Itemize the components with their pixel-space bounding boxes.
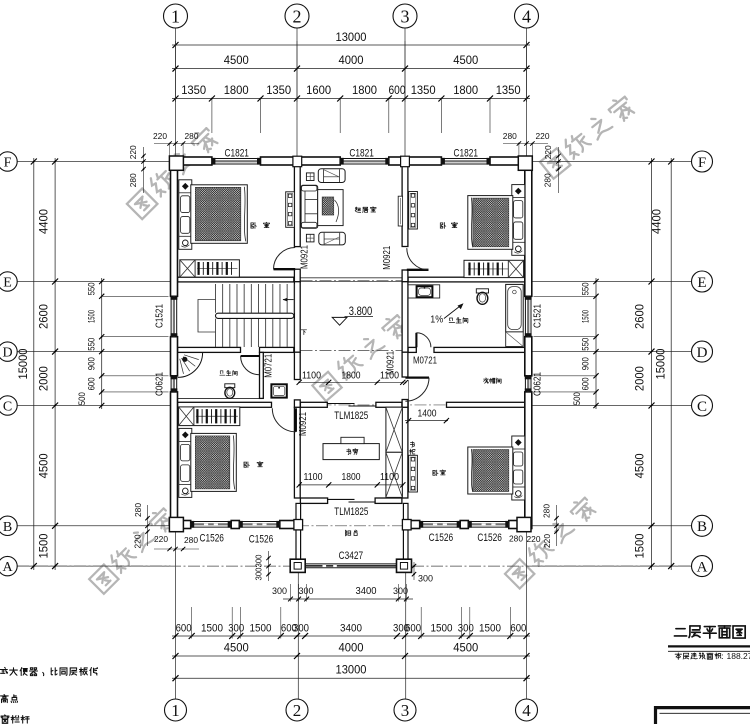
svg-text:1100: 1100 xyxy=(304,471,323,483)
wall right exterior, between windows xyxy=(525,337,532,376)
svg-text:M0721: M0721 xyxy=(263,354,275,378)
svg-text::: : xyxy=(721,651,723,661)
label bookcase xyxy=(410,442,414,448)
svg-text:15000: 15000 xyxy=(654,348,668,379)
label M0921 bedroom2 door xyxy=(381,246,393,270)
watermark top-left xyxy=(126,125,220,219)
bed bedroom3 xyxy=(179,428,192,497)
watermark top-right xyxy=(539,93,637,178)
room label bathroom2 xyxy=(449,318,455,323)
dim line small left xyxy=(101,278,103,409)
svg-text:C1526: C1526 xyxy=(249,533,274,545)
svg-text:280: 280 xyxy=(184,535,198,545)
svg-text:550: 550 xyxy=(581,282,592,295)
svg-text:C1521: C1521 xyxy=(153,304,165,328)
svg-text:1500: 1500 xyxy=(37,533,51,558)
svg-text:13000: 13000 xyxy=(336,663,367,677)
svg-text:4500: 4500 xyxy=(224,641,249,655)
wardrobe bedroom1 xyxy=(180,260,240,277)
svg-text:300: 300 xyxy=(393,586,408,597)
svg-text:D: D xyxy=(697,345,708,361)
wall B, window to wall2 xyxy=(280,521,297,529)
stair treads upper flight xyxy=(216,284,295,313)
wall 3, E to D bath2 side xyxy=(402,282,408,353)
wall left exterior, C0621 to B xyxy=(171,392,178,529)
note line 3 xyxy=(1,715,9,723)
svg-text:M0721: M0721 xyxy=(413,355,437,367)
svg-text:2: 2 xyxy=(293,701,302,720)
svg-text:C: C xyxy=(697,399,707,415)
svg-text:C0621: C0621 xyxy=(532,372,544,396)
svg-text:280: 280 xyxy=(503,131,517,141)
wall C, wall2 to sliding door xyxy=(300,402,327,407)
sliding door TLM1825 in wall C xyxy=(327,403,354,405)
pier F-wall2 xyxy=(293,156,302,167)
dim 1400 bedroom4 opening xyxy=(405,420,448,422)
label C0621 left xyxy=(153,372,165,396)
svg-text:1100: 1100 xyxy=(302,369,321,381)
axis bubble 2 top xyxy=(285,4,309,28)
wall B, between windows right xyxy=(460,521,468,529)
balcony post left xyxy=(290,559,305,572)
dim line 4500/4000/4500 top xyxy=(172,68,530,70)
closet bedroom3 xyxy=(179,407,240,426)
svg-text:1500: 1500 xyxy=(633,533,647,558)
axis line C right stub xyxy=(532,405,692,407)
corner shower bathroom1 xyxy=(178,353,203,378)
svg-text:C1821: C1821 xyxy=(349,147,374,159)
axis line D left stub xyxy=(17,351,171,353)
svg-text:220: 220 xyxy=(527,534,541,544)
svg-text:F: F xyxy=(698,155,706,171)
svg-text:300: 300 xyxy=(254,567,264,580)
wall D, bath2 door to A4 xyxy=(434,347,525,352)
axis line F left stub xyxy=(17,161,171,163)
pier B-balcony wall east xyxy=(402,520,411,530)
study bottom wall right segment xyxy=(375,498,402,503)
svg-text:E: E xyxy=(697,275,706,291)
axis bubble 4 top xyxy=(515,4,539,28)
svg-text:1800: 1800 xyxy=(352,83,377,97)
svg-text:1400: 1400 xyxy=(418,407,437,419)
svg-text:4400: 4400 xyxy=(650,209,664,234)
svg-text:300: 300 xyxy=(293,623,309,635)
wall F top, segment mid-left xyxy=(261,157,341,165)
wall 2, study west side xyxy=(294,407,300,498)
svg-text:1800: 1800 xyxy=(224,83,249,97)
dresser bedroom2 xyxy=(409,192,418,230)
wall 3, C junction stub xyxy=(402,400,408,408)
axis bubble D right xyxy=(692,341,713,362)
axis C dash-dot in wall xyxy=(301,404,525,406)
window C1526 bedroom3 left xyxy=(191,521,232,523)
axis line F right stub xyxy=(532,161,692,163)
balcony west wall xyxy=(296,503,301,559)
axis line A right stub xyxy=(532,565,692,567)
wall B, between windows left xyxy=(231,521,239,529)
svg-text:15000: 15000 xyxy=(16,348,30,379)
svg-text:B: B xyxy=(697,519,707,535)
axis bubble A right xyxy=(692,556,713,577)
dim line small right xyxy=(595,278,597,409)
svg-text:M0921: M0921 xyxy=(299,245,311,269)
toilet bathroom1 xyxy=(225,384,235,388)
room label bedroom2 xyxy=(440,223,445,229)
svg-text:220: 220 xyxy=(128,145,138,159)
wall right exterior, F to window C1521 xyxy=(525,157,532,296)
wall D, bath1-door to wall2 xyxy=(260,347,294,352)
door M0721 bathroom2 xyxy=(415,333,417,348)
axis bubble 3 bottom xyxy=(394,699,416,721)
dresser bedroom1 xyxy=(286,192,295,228)
svg-text:4500: 4500 xyxy=(37,453,51,478)
dim 1100/1800/1100 study xyxy=(299,484,403,486)
svg-text:600: 600 xyxy=(581,377,592,390)
window C1526 bedroom4 left xyxy=(420,521,461,523)
svg-text:1500: 1500 xyxy=(431,623,453,635)
wall 2, E to D stairwell side xyxy=(294,282,300,353)
svg-text:TLM1825: TLM1825 xyxy=(334,410,368,422)
svg-text:1500: 1500 xyxy=(87,310,98,323)
dim line storey right xyxy=(651,158,653,570)
note line 2 xyxy=(1,695,9,703)
wall E xyxy=(178,277,294,282)
stair handrail xyxy=(216,313,294,318)
svg-text:280: 280 xyxy=(543,173,553,187)
svg-text:550: 550 xyxy=(87,338,98,351)
washbasin counter bathroom2 xyxy=(408,285,440,298)
svg-text:600: 600 xyxy=(405,623,421,635)
axis line 3 xyxy=(404,28,406,157)
window C1521 stairwell left wall xyxy=(170,296,172,336)
svg-text:4: 4 xyxy=(522,701,531,720)
svg-text:2600: 2600 xyxy=(633,304,647,329)
axis bubble C left xyxy=(0,396,17,415)
svg-text:C1521: C1521 xyxy=(532,304,544,328)
axis line B right stub xyxy=(532,525,692,527)
axis line E left stub xyxy=(17,281,171,283)
axis bubble 4 bottom xyxy=(516,699,538,721)
svg-text:1350: 1350 xyxy=(181,83,206,97)
room label bedroom4 xyxy=(433,470,438,475)
svg-text:300: 300 xyxy=(418,574,433,585)
svg-text:D: D xyxy=(2,346,12,361)
wall 3, study east side xyxy=(402,407,408,498)
label M0921 bedroom3 door xyxy=(297,412,309,436)
room label study xyxy=(347,449,351,455)
svg-text:1: 1 xyxy=(171,6,180,26)
room label bedroom3 xyxy=(244,462,249,468)
tv board living xyxy=(398,196,402,226)
axis bubble C right xyxy=(692,395,713,416)
window C1821 bedroom2 xyxy=(441,157,490,159)
svg-text:F: F xyxy=(4,156,12,171)
window C0621 cloakroom right wall xyxy=(524,376,526,392)
svg-text:2000: 2000 xyxy=(37,366,51,391)
svg-text:300: 300 xyxy=(272,586,287,597)
bathroom1 bottom line xyxy=(178,397,260,399)
axis line 2 xyxy=(296,28,298,157)
hall-living floor lines on E xyxy=(300,277,402,279)
svg-text:1100: 1100 xyxy=(380,471,399,483)
svg-text:C1526: C1526 xyxy=(199,533,224,545)
study bottom wall left segment xyxy=(300,498,327,503)
svg-text:280: 280 xyxy=(185,131,199,141)
dim row window spacing bottom xyxy=(172,635,530,637)
svg-text:280: 280 xyxy=(542,504,552,518)
balcony east wall xyxy=(403,503,408,559)
svg-text:500: 500 xyxy=(572,392,583,405)
dim line 15000 left xyxy=(33,158,35,570)
room label cloakroom xyxy=(483,378,488,384)
lamp table south living xyxy=(306,234,314,242)
svg-text:220: 220 xyxy=(536,131,550,141)
watermark center xyxy=(311,312,409,401)
svg-text:3400: 3400 xyxy=(340,623,362,635)
axis bubble 1 top xyxy=(164,4,188,28)
svg-text:1%: 1% xyxy=(430,314,443,326)
wall B, window to A4 xyxy=(509,521,530,529)
svg-text:2: 2 xyxy=(293,6,302,26)
wardrobe bedroom2 xyxy=(464,260,524,277)
svg-text:280: 280 xyxy=(128,173,138,187)
window C0621 bath1 left wall xyxy=(170,376,172,392)
pier top-right corner xyxy=(518,156,532,170)
axis bubble 3 top xyxy=(393,4,417,28)
svg-text:3: 3 xyxy=(401,701,410,720)
svg-text:M0921: M0921 xyxy=(385,351,397,375)
svg-text:B: B xyxy=(3,520,12,535)
axis line E right stub xyxy=(532,281,692,283)
svg-text:M0921: M0921 xyxy=(297,412,309,436)
axis D dash-dot across corridor xyxy=(301,350,403,352)
svg-text:4000: 4000 xyxy=(339,641,364,655)
pier B-balcony wall west xyxy=(294,520,303,530)
svg-text:C: C xyxy=(3,400,12,415)
svg-text:C3427: C3427 xyxy=(339,550,364,562)
svg-text:TLM1825: TLM1825 xyxy=(334,506,368,518)
wall F top, segment A1-window xyxy=(171,157,212,165)
bathroom1 east wall xyxy=(260,352,264,398)
svg-text:4000: 4000 xyxy=(339,53,364,67)
bathtub bathroom2 xyxy=(506,284,524,332)
dim line balcony 300/300/3400/300 bottom xyxy=(283,598,413,600)
svg-text:600: 600 xyxy=(87,377,98,390)
svg-text:C1821: C1821 xyxy=(454,147,479,159)
svg-text:3: 3 xyxy=(401,6,410,26)
svg-text:600: 600 xyxy=(176,623,192,635)
wall 3, door to E xyxy=(402,270,408,282)
svg-text:220: 220 xyxy=(543,145,553,159)
svg-text:1500: 1500 xyxy=(250,623,272,635)
armchair south living xyxy=(319,232,346,245)
extension lines right xyxy=(534,295,597,297)
room label balcony xyxy=(346,530,351,536)
watermark bottom-right xyxy=(504,495,598,589)
border box bottom-right xyxy=(654,706,657,724)
balcony rail window C3427 xyxy=(305,563,396,565)
balcony post right xyxy=(397,559,412,572)
dim line 13000 bottom xyxy=(172,677,530,679)
axis line B left stub xyxy=(17,525,171,527)
dim line 4500/4000/4500 bottom xyxy=(172,655,530,657)
label C1521 left xyxy=(153,304,165,328)
wall B, wall3 to window xyxy=(403,521,420,529)
svg-text:1500: 1500 xyxy=(479,623,501,635)
svg-text:900: 900 xyxy=(581,357,592,370)
label C1521 right xyxy=(532,304,544,328)
axis bubble E right xyxy=(692,271,713,292)
bath2 lower box xyxy=(506,332,524,347)
svg-text:3400: 3400 xyxy=(356,585,377,597)
stair down label xyxy=(301,330,306,335)
axis A dash-dot xyxy=(17,565,290,567)
sliding door TLM1825 study bottom xyxy=(328,498,355,500)
axis bubble 1 bottom xyxy=(165,699,187,721)
washbasin lobby xyxy=(271,384,286,397)
window C1821 living xyxy=(340,157,389,159)
axis bubble D left xyxy=(0,342,17,361)
lamp table north living xyxy=(306,173,314,181)
svg-text:C1526: C1526 xyxy=(429,532,454,544)
svg-text:1: 1 xyxy=(171,701,180,720)
toilet bathroom2 xyxy=(476,289,488,293)
svg-text:188.27M: 188.27M xyxy=(727,651,750,661)
svg-text:4500: 4500 xyxy=(453,641,478,655)
room label living xyxy=(355,207,361,212)
svg-text:300: 300 xyxy=(228,623,244,635)
dresser bedroom4 xyxy=(409,455,418,492)
dim 1100/1800/1100 corridor xyxy=(299,381,403,383)
svg-text:600: 600 xyxy=(510,623,526,635)
door M0921 bedroom2 xyxy=(407,269,429,271)
axis line A left stub xyxy=(17,565,171,567)
window C1521 bath2 right wall xyxy=(524,296,526,336)
wall C, left segment xyxy=(178,402,272,407)
coffee table living xyxy=(318,190,343,226)
extension lines left xyxy=(102,295,169,297)
svg-text:300: 300 xyxy=(299,586,314,597)
svg-text:A: A xyxy=(697,560,708,576)
watermark bottom-left xyxy=(88,505,176,593)
pier top-left corner xyxy=(169,156,183,170)
stair landing edge xyxy=(198,300,216,333)
axis bubble B right xyxy=(692,515,713,536)
door M0721 bathroom1 xyxy=(241,355,260,357)
armchair north living xyxy=(318,169,345,183)
dim line 15000 right xyxy=(670,158,672,570)
svg-text:300: 300 xyxy=(458,623,474,635)
washbasin bathroom2 xyxy=(417,286,433,297)
title floor area note xyxy=(675,653,681,659)
label C0621 right xyxy=(532,372,544,396)
window C1526 bedroom3 right xyxy=(239,521,279,523)
dim line window spacing top xyxy=(172,98,530,100)
svg-text:13000: 13000 xyxy=(336,30,367,44)
axis line 4 xyxy=(526,28,528,157)
svg-text:220: 220 xyxy=(542,534,552,548)
svg-text:4500: 4500 xyxy=(224,53,249,67)
axis bubble A left xyxy=(0,556,17,575)
label M0921 bedroom1 door xyxy=(299,245,311,269)
extension lines top windows xyxy=(211,99,213,134)
level mark 3.800 xyxy=(332,317,347,325)
door M0921 bedroom1 xyxy=(274,268,296,270)
bed bedroom2 xyxy=(512,185,525,256)
wall D, wall3 to bath2 door xyxy=(408,347,416,352)
door M0921 bedroom3 xyxy=(295,408,297,432)
label M0921 cloakroom door xyxy=(385,351,397,375)
svg-text:500: 500 xyxy=(77,392,88,405)
axis bubble F right xyxy=(692,151,713,172)
svg-text:C1526: C1526 xyxy=(477,532,502,544)
svg-text:600: 600 xyxy=(389,83,406,97)
svg-text:280: 280 xyxy=(509,534,523,544)
wall C, right of 1400 opening xyxy=(447,402,525,407)
axis bubble E left xyxy=(0,272,17,291)
wall B, A1 to window xyxy=(171,521,191,529)
svg-text:2000: 2000 xyxy=(633,366,647,391)
svg-text:4: 4 xyxy=(522,6,531,26)
wall 2, door to E xyxy=(294,269,300,282)
svg-text:M0921: M0921 xyxy=(381,246,393,270)
svg-text:1800: 1800 xyxy=(342,471,361,483)
axis B dash-dot across balcony xyxy=(297,525,403,527)
axis line C left stub xyxy=(17,405,171,407)
svg-text:220: 220 xyxy=(153,131,167,141)
svg-text:900: 900 xyxy=(87,357,98,370)
svg-text:4500: 4500 xyxy=(453,53,478,67)
svg-text:220: 220 xyxy=(133,534,143,548)
window C1821 bedroom1 xyxy=(212,157,261,159)
svg-text:1350: 1350 xyxy=(266,83,291,97)
extension lines balcony dims xyxy=(290,584,292,602)
svg-text:C0621: C0621 xyxy=(153,372,165,396)
title second floor plan xyxy=(674,629,686,636)
wall 2, C junction stub xyxy=(294,400,300,408)
axis line 1 xyxy=(175,28,177,157)
svg-text:E: E xyxy=(3,276,12,291)
svg-text:550: 550 xyxy=(581,338,592,351)
wall 2, D to lobby opening xyxy=(294,352,300,379)
axis bubble 2 bottom xyxy=(286,699,308,721)
desk study xyxy=(323,444,379,460)
pier F-wall3 xyxy=(401,156,410,167)
pier bottom-left corner xyxy=(169,517,183,531)
svg-text:1350: 1350 xyxy=(411,83,436,97)
room label bathroom1 xyxy=(220,371,225,375)
svg-text:4500: 4500 xyxy=(633,453,647,478)
wall F top, segment window-A4 xyxy=(490,157,530,165)
axis line D right stub xyxy=(532,351,692,353)
svg-text:550: 550 xyxy=(87,282,98,295)
label M0721 bathroom1 door xyxy=(263,354,275,378)
stair treads lower flight xyxy=(216,319,295,347)
svg-text:2600: 2600 xyxy=(37,304,51,329)
svg-text:C1821: C1821 xyxy=(224,147,249,159)
svg-text:A: A xyxy=(2,560,13,575)
svg-text:1800: 1800 xyxy=(342,369,361,381)
axis bubble F left xyxy=(0,152,17,171)
svg-text:1600: 1600 xyxy=(306,83,331,97)
bed bedroom1 xyxy=(179,180,192,250)
wall 3, F to bedroom2 door xyxy=(402,165,408,247)
axis bubble B left xyxy=(0,516,17,535)
svg-text:1800: 1800 xyxy=(453,83,478,97)
bookcase study xyxy=(386,407,402,452)
dim line storey left xyxy=(54,158,56,570)
extension lines bottom windows xyxy=(191,607,193,639)
